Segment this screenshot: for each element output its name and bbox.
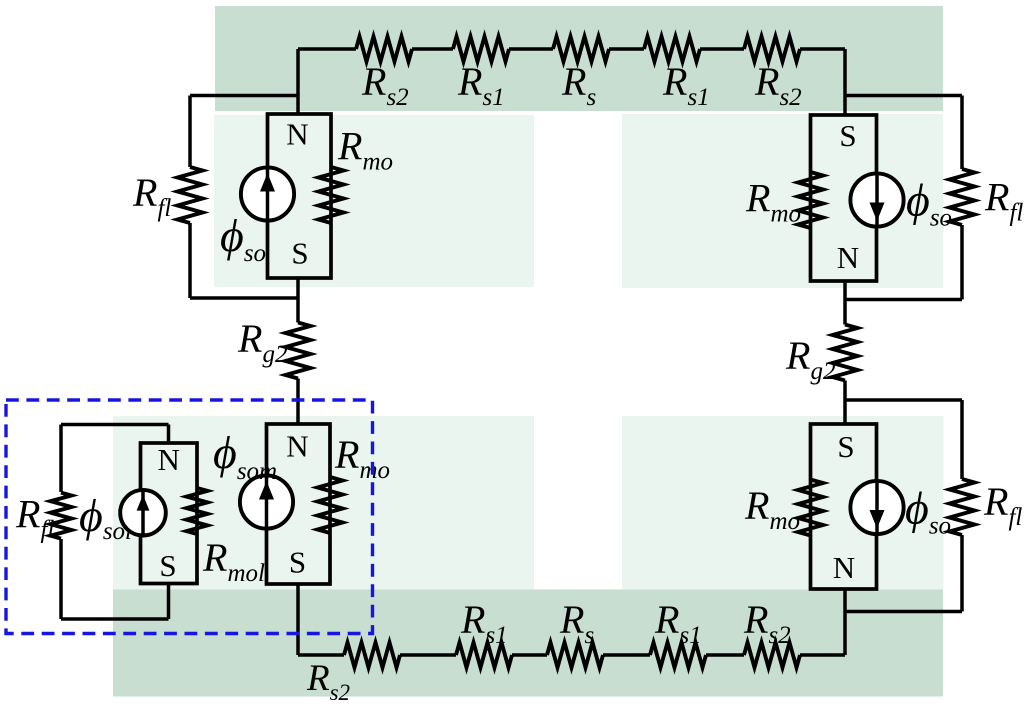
resistor Rs2 (bottom bus) [344,643,400,668]
resistor Rs2 (bottom bus) [744,643,800,668]
svg-text:S: S [837,429,854,464]
resistor Rg2 (right airgap) [833,325,858,381]
resistor Rs1 (bottom bus) [456,643,512,668]
wire: left column magnet to bottom bus [296,584,300,655]
resistor Rfl (bottom-right leakage) [950,479,975,535]
resistor Rmo (top-left magnet internal) [319,167,344,223]
resistor Rmo (bottom-left magnet internal) [318,477,343,533]
resistor Rmo (bottom-right magnet internal) [798,480,823,536]
svg-text:S: S [289,544,306,579]
wire: right column between magnets [843,281,847,424]
flux source phi_som (bottom-left) [240,475,293,528]
svg-text:S: S [291,236,308,271]
svg-text:N: N [837,240,859,275]
wire: top-right leakage branch [845,96,962,300]
magnet box: bottom-left [267,424,331,584]
shaded region: top-right magnet zone [622,114,943,288]
magnet box: bottom-right [811,424,877,589]
shaded region: bottom stator yoke band [113,590,943,697]
magnet box: top-left [268,114,332,278]
svg-text:N: N [286,116,308,151]
shaded region: bottom-right magnet zone [622,416,944,590]
wire: right column magnet to bottom bus [843,589,847,655]
resistor Rs1 (top bus) [453,37,509,62]
wire: bottom yoke bus [298,653,845,657]
shaded region: bottom-left magnet zone [113,416,534,590]
svg-text:ϕso: ϕso [905,483,951,540]
wire: left column drop from top bus to magnet [296,49,300,114]
resistor Rfl (top-right leakage) [950,169,975,225]
svg-text:Rfl: Rfl [983,479,1022,531]
svg-text:Rfl: Rfl [15,492,54,544]
flux source phi_sol (inset) [120,490,166,536]
resistor Rs2 (top bus) [744,37,800,62]
resistor Rs (bottom bus) [547,643,603,668]
svg-text:S: S [159,548,176,583]
wire: inset loop [61,425,169,620]
svg-text:Rg2: Rg2 [237,316,287,368]
svg-text:Rfl: Rfl [984,175,1023,227]
resistor Rg2 (left airgap) [286,323,311,379]
resistor Rs2 (top bus) [356,37,412,62]
svg-text:N: N [158,442,180,477]
resistor Rfl (top-left leakage) [178,167,203,223]
wire: bottom-right leakage branch [845,400,962,612]
flux source phi_so (top-right) [850,173,903,226]
magnet box: top-right [811,115,877,281]
shaded region: top stator yoke band [215,6,943,111]
resistor Rs (top bus) [553,37,609,62]
flux source phi_so (top-left) [241,167,294,220]
svg-text:Rg2: Rg2 [785,333,835,385]
wire: top yoke bus [298,47,845,51]
shaded region: top-left magnet zone [214,115,534,287]
resistor Rmol (inset magnet internal) [187,488,208,534]
wire: right column drop from top bus to magnet [843,49,847,115]
wire: left column between magnets [296,278,300,424]
svg-text:S: S [839,118,856,153]
resistor Rs1 (top bus) [644,37,700,62]
annotation: blue dashed boundary box [6,400,373,634]
resistor Rs1 (bottom bus) [650,643,706,668]
svg-text:ϕso: ϕso [906,175,952,232]
svg-text:N: N [286,428,308,463]
svg-text:N: N [833,550,855,585]
wire: top-left leakage branch [190,96,298,299]
svg-text:Rfl: Rfl [132,170,171,222]
flux source phi_so (bottom-right) [850,481,903,534]
magnet box: inset small magnet [141,443,198,584]
resistor Rmo (top-right magnet internal) [798,172,823,228]
resistor Rfl (inset leakage) [51,493,72,539]
